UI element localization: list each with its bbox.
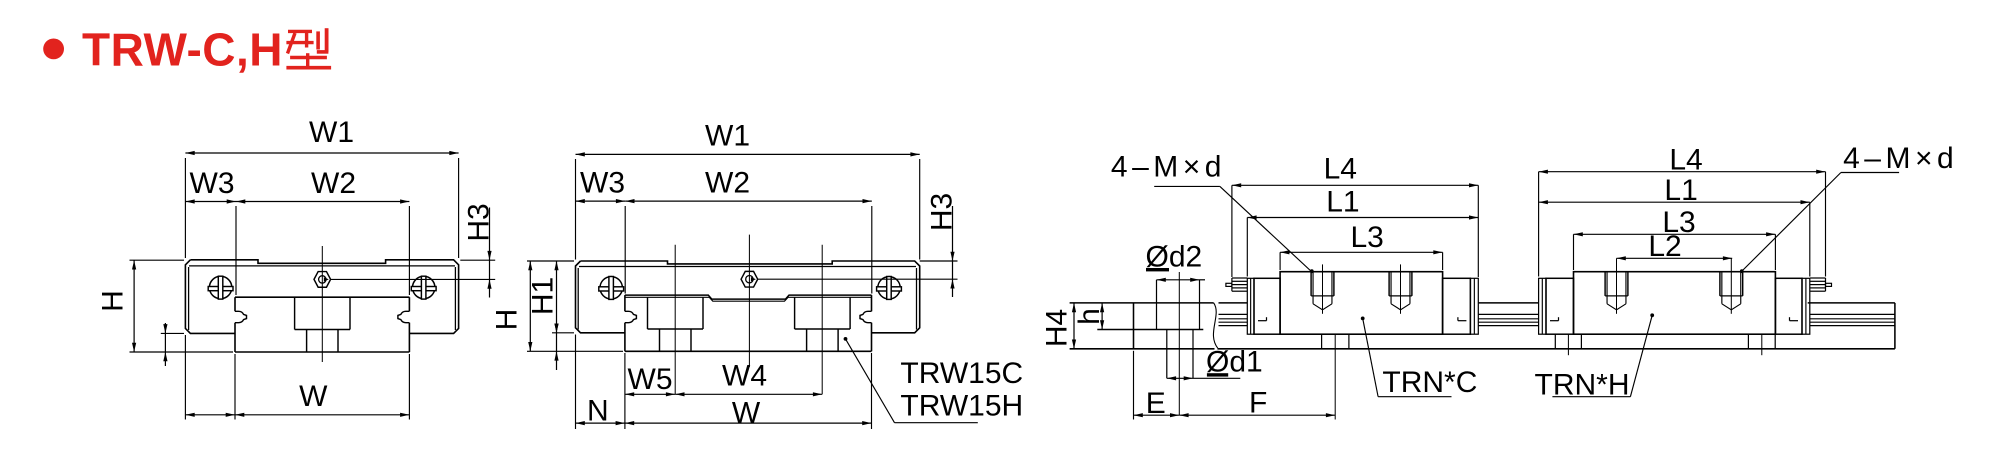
view1 dimension W3 W2 [235, 206, 237, 295]
svg-text:W: W [732, 397, 761, 430]
view3 rail bottom line [1070, 348, 1215, 350]
view2 rail through hole right [806, 329, 808, 351]
view2 center line [748, 235, 750, 367]
view2 dimension H [527, 260, 574, 262]
view2 dimension W1 [575, 159, 577, 260]
view2 rail through hole left [659, 329, 661, 351]
block2 grease nipple [1810, 277, 1825, 279]
svg-text:TRW15H: TRW15H [900, 390, 1023, 423]
view1 dimension H [130, 259, 185, 261]
view2 dimension W5 W4 [625, 393, 675, 395]
view2 hex to H3 extension line [758, 278, 958, 280]
view1 rail cross-section [235, 296, 409, 298]
view3 dimension H4 [1073, 303, 1075, 349]
svg-text:W: W [299, 380, 328, 413]
svg-text:TRW-C,H: TRW-C,H [82, 24, 283, 76]
rail hole under block1 [1321, 334, 1323, 349]
block thread hole at 1400.5 [1388, 272, 1390, 296]
block1 grease nipple [1232, 277, 1247, 279]
view3 dimension Od1 [1167, 377, 1241, 379]
view2 hole centerline right [821, 245, 823, 394]
block thread hole at 1616.5 [1604, 272, 1606, 296]
block cap tick right [1458, 320, 1467, 322]
view1 rail counterbore [294, 297, 296, 329]
block end cap left [1546, 278, 1574, 334]
view1 hex nut center [314, 272, 331, 288]
svg-text:L4: L4 [1669, 143, 1702, 176]
view3 rail right end face [1894, 303, 1896, 349]
svg-text:H: H [491, 309, 524, 331]
view2 rail counterbore left [647, 297, 649, 329]
view2 dimension N W [575, 335, 577, 430]
svg-text:W2: W2 [311, 167, 356, 200]
block end seal right [1470, 278, 1478, 334]
view3 dimension E F [1133, 351, 1135, 420]
view1 rail notch right [398, 311, 410, 322]
block thread hole at 1322.5 [1310, 272, 1312, 296]
svg-text:W1: W1 [705, 120, 750, 153]
block1 dimension L4 [1231, 185, 1233, 277]
view2 dimension H1 and clearance [552, 332, 574, 334]
svg-text:W3: W3 [580, 166, 625, 199]
view1 rail notch left [235, 311, 247, 322]
view1 screw left [209, 276, 231, 298]
block1 dimension L3 [1279, 252, 1281, 270]
view1 carriage inner side lines [188, 267, 190, 330]
svg-text:W1: W1 [309, 116, 354, 149]
view2 rail outline [625, 295, 872, 299]
view1 carriage outline [190, 260, 458, 334]
view1 rail through hole [306, 330, 308, 353]
svg-text:4–M×d: 4–M×d [1843, 142, 1958, 175]
svg-text:H: H [97, 290, 130, 312]
view2 hex nut center [741, 271, 758, 287]
block main body [1280, 272, 1443, 335]
block end cap left [1254, 278, 1280, 334]
view2 carriage outline [581, 261, 920, 333]
view3 rail break line [1213, 303, 1218, 349]
svg-text:L1: L1 [1664, 174, 1697, 207]
leader TRN*H [1650, 313, 1654, 317]
view3 rail top line segments [1070, 302, 1214, 304]
view3 dimension Od2 [1157, 279, 1200, 281]
title bullet [43, 39, 64, 60]
svg-text:H3: H3 [926, 193, 959, 231]
block end cap right [1775, 278, 1802, 334]
view2 rail notch left [625, 311, 637, 322]
view2 dimension W3 W2 [624, 206, 626, 294]
svg-text:W4: W4 [722, 360, 767, 393]
view2 rail notch right [860, 311, 872, 322]
view2 carriage inner side lines [577, 268, 579, 330]
svg-text:TRW15C: TRW15C [900, 357, 1023, 390]
block2 dimension L2 [1617, 257, 1733, 259]
svg-text:L4: L4 [1324, 152, 1357, 185]
view2 screw right [878, 277, 900, 299]
block cap tick left [1550, 320, 1559, 322]
view3 first hole centerline [1178, 272, 1180, 415]
svg-text:N: N [587, 394, 609, 427]
view2 carriage inner top line [579, 266, 916, 268]
svg-text:h: h [1073, 308, 1106, 325]
svg-text:4–M×d: 4–M×d [1111, 150, 1226, 183]
svg-text:TRN*H: TRN*H [1535, 369, 1630, 402]
block2 dimension L4 [1538, 172, 1540, 277]
block main body [1574, 272, 1776, 335]
view1 dimension W1 [184, 158, 186, 258]
block2 dimension L1 [1809, 202, 1811, 276]
view2 leader TRW15C TRW15H [844, 337, 848, 341]
svg-text:W3: W3 [190, 167, 235, 200]
view2 screw left [600, 277, 622, 299]
svg-text:H1: H1 [526, 277, 559, 315]
block end seal right [1802, 278, 1810, 334]
view3 dimension h [1101, 303, 1103, 330]
view3 counterbore edges Od2 [1156, 280, 1158, 330]
block end seal left [1247, 278, 1254, 334]
view1 center line [321, 246, 323, 362]
svg-text:L1: L1 [1326, 186, 1359, 219]
view2 hole centerline left [674, 245, 676, 394]
view3 rail end face left [1133, 303, 1135, 349]
rail hole under block2 left [1554, 334, 1556, 349]
block cap tick right [1790, 320, 1799, 322]
svg-text:W2: W2 [705, 166, 750, 199]
svg-text:F: F [1249, 387, 1267, 420]
view3 counterbore seat line [1097, 329, 1203, 331]
svg-text:L2: L2 [1648, 230, 1681, 263]
svg-text:H4: H4 [1041, 309, 1074, 347]
svg-text:TRN*C: TRN*C [1382, 366, 1477, 399]
block thread hole at 1731.3 [1719, 272, 1721, 296]
block2 dimension L3 [1573, 234, 1575, 270]
view3 through hole edges Od1 [1166, 330, 1168, 379]
view1 small clearance dimension [161, 332, 184, 334]
rail hole under block2 right [1747, 334, 1749, 349]
view1 carriage inner top line [189, 265, 455, 267]
block cap tick left [1258, 320, 1267, 322]
view2 rail counterbore right [794, 297, 796, 329]
leader TRN*C [1361, 317, 1365, 321]
svg-text:E: E [1146, 387, 1166, 420]
block end seal left [1539, 278, 1546, 334]
block end cap right [1443, 278, 1471, 334]
block1 dimension L1 [1246, 218, 1248, 277]
svg-text:H3: H3 [463, 203, 496, 241]
view3 rail groove lines [1219, 313, 1248, 315]
view1 dimension H3 [460, 259, 495, 261]
svg-text:W5: W5 [628, 363, 673, 396]
view2 dimension H3 [920, 260, 958, 262]
view1 screw right [413, 276, 435, 298]
svg-text:L3: L3 [1351, 221, 1384, 254]
view1 dimension W [184, 335, 186, 420]
view1 hex to H3 extension line [331, 278, 496, 280]
title CJK glyph Xing drawn as strokes [288, 30, 312, 33]
